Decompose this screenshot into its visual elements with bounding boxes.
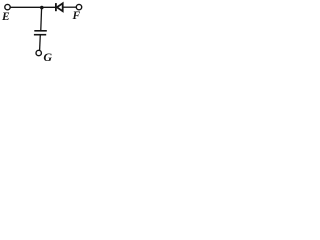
diode D1 triangle — [57, 3, 63, 11]
node junction dot — [40, 6, 44, 10]
terminal F — [76, 4, 81, 9]
wire capacitor down to G — [39, 35, 42, 51]
wire diode to F — [63, 6, 77, 8]
label E — [2, 12, 10, 24]
capacitor C1 top plate — [34, 30, 47, 32]
diode D1 cathode bar — [55, 3, 57, 11]
label F — [73, 11, 81, 23]
terminal G — [36, 50, 41, 55]
label G — [43, 51, 52, 63]
wire junction down to capacitor — [40, 8, 43, 31]
capacitor C1 bottom plate — [34, 34, 46, 36]
wire E to diode — [10, 6, 55, 8]
terminal E — [5, 4, 10, 9]
